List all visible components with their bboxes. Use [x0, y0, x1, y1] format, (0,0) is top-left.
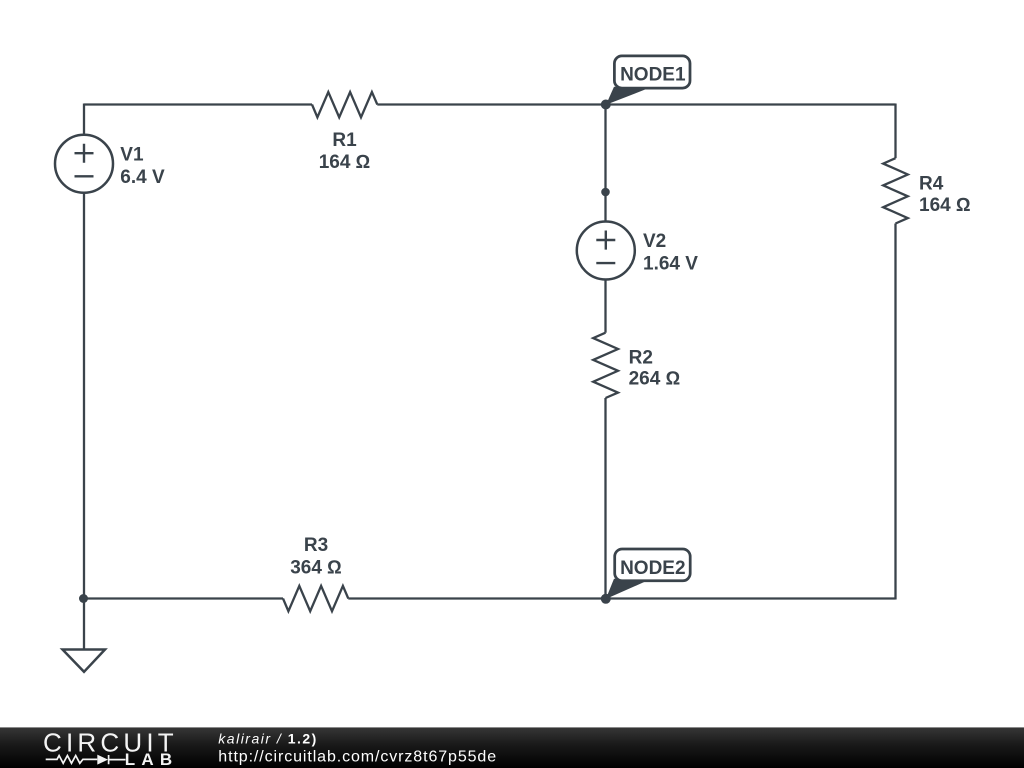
svg-text:R4: R4	[919, 174, 944, 195]
wire middle branch (R2 to NODE2)	[604, 398, 606, 599]
svg-text:http://circuitlab.com/cvrz8t67: http://circuitlab.com/cvrz8t67p55de	[218, 749, 497, 766]
node NODE2 dot	[601, 594, 611, 604]
svg-text:164 Ω: 164 Ω	[319, 152, 371, 173]
svg-text:264 Ω: 264 Ω	[629, 369, 681, 390]
wire top rail left of R1	[84, 103, 312, 105]
svg-text:1.64 V: 1.64 V	[643, 254, 698, 275]
wire ground stub	[83, 599, 85, 650]
resistor R1	[312, 92, 377, 117]
ground	[63, 650, 106, 672]
wire right rail bottom	[894, 224, 896, 600]
svg-text:V1: V1	[120, 144, 144, 165]
wire bottom rail right of R3	[348, 597, 895, 599]
svg-text:LAB: LAB	[125, 750, 179, 768]
resistor R2	[593, 333, 618, 398]
wire left rail top (V1 to top rail)	[83, 104, 85, 135]
resistor R3	[283, 586, 348, 611]
V2 plus sign	[596, 231, 615, 250]
resistor R4	[883, 158, 908, 223]
junction dot bottom-left	[79, 594, 88, 603]
wire middle branch (V2 to R2)	[604, 280, 606, 333]
diode fill	[97, 755, 108, 765]
voltage source V2	[577, 222, 635, 280]
svg-text:NODE2: NODE2	[620, 558, 685, 579]
svg-text:kalirair / 1.2): kalirair / 1.2)	[218, 731, 318, 747]
node NODE2 callout	[606, 549, 690, 599]
CircuitLab logo resistor-diode squiggle	[46, 755, 126, 764]
svg-text:V2: V2	[643, 231, 666, 252]
node NODE1 callout	[606, 56, 690, 105]
svg-text:R2: R2	[629, 348, 653, 369]
svg-text:NODE1: NODE1	[620, 64, 686, 85]
svg-text:6.4 V: 6.4 V	[120, 167, 165, 188]
wire top rail right of R1	[377, 103, 895, 105]
node NODE1 dot	[601, 100, 611, 110]
V1 minus sign	[75, 175, 94, 177]
svg-text:364 Ω: 364 Ω	[290, 558, 342, 579]
junction dot middle branch	[601, 188, 610, 197]
wire left rail bottom (V1 to bottom rail)	[83, 193, 85, 599]
wire bottom rail left of R3	[83, 597, 283, 599]
wire right rail top	[894, 104, 896, 159]
voltage source V1	[55, 135, 113, 193]
footer bar top highlight	[0, 727, 1024, 728]
V2 minus sign	[596, 262, 615, 264]
wire middle branch (NODE1 to V2)	[604, 105, 606, 221]
footer bar	[0, 727, 1024, 768]
svg-text:164 Ω: 164 Ω	[919, 195, 971, 216]
svg-text:R1: R1	[332, 130, 357, 151]
V1 plus sign	[75, 144, 94, 163]
svg-text:R3: R3	[304, 535, 328, 556]
